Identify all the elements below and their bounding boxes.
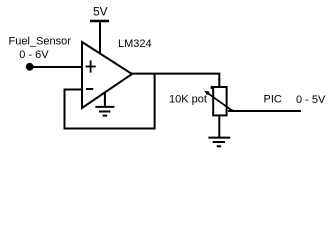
- svg-text:5V: 5V: [93, 4, 108, 18]
- wire pot wiper to PIC: [228, 110, 301, 112]
- svg-text:PIC: PIC: [264, 93, 282, 105]
- svg-text:0 - 5V: 0 - 5V: [296, 94, 326, 106]
- pin + (non-inverting): [86, 60, 96, 72]
- svg-text:0 - 6V: 0 - 6V: [19, 49, 49, 61]
- resistor R1 10K potentiometer body: [213, 87, 226, 115]
- svg-text:LM324: LM324: [118, 38, 152, 50]
- ground (op-amp V- pin): [95, 92, 114, 116]
- wire pot bottom to ground: [218, 115, 220, 137]
- wiper arrow of 10K pot: [206, 92, 234, 111]
- wire non-inverting input: [30, 66, 82, 68]
- node junction at pot top-left corner: [211, 86, 214, 89]
- node Fuel_Sensor input terminal: [26, 63, 34, 71]
- svg-text:Fuel_Sensor: Fuel_Sensor: [9, 36, 72, 48]
- svg-text:10K pot: 10K pot: [169, 94, 207, 106]
- ground (pot bottom): [208, 138, 230, 147]
- pin - (inverting): [86, 88, 93, 90]
- wire inverting input / feedback loop: [65, 74, 155, 129]
- power 5V supply tee: [90, 21, 109, 56]
- wire op-amp output: [131, 74, 219, 88]
- op-amp U1 LM324: [82, 42, 132, 108]
